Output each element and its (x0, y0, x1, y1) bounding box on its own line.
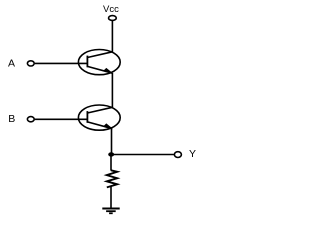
Q1 emitter arrow (103, 68, 112, 73)
svg-text:B: B (8, 113, 15, 125)
Q2 body circle (78, 105, 120, 130)
ground bar 3 (109, 212, 113, 214)
svg-text:A: A (8, 58, 15, 70)
Q1 body circle (78, 50, 120, 75)
svg-text:Vcc: Vcc (103, 4, 119, 15)
wire Vcc to Q1 collector (111, 20, 113, 52)
Q2 collector lead (87, 107, 112, 113)
ground (102, 209, 119, 214)
ground bar 2 (106, 210, 116, 212)
Q1 emitter lead (87, 66, 112, 73)
wire B to Q2 base (35, 118, 87, 120)
output terminal Y (174, 152, 181, 158)
input terminal A (27, 61, 34, 66)
transistor Q1 (NPN, input A) (78, 50, 120, 75)
wire Q1 emitter to Q2 collector (111, 73, 113, 108)
Vcc terminal (109, 16, 117, 21)
Q2 base bar (86, 111, 88, 123)
input terminal B (27, 117, 34, 122)
wire Q2 emitter to junction (111, 128, 113, 156)
Q2 emitter lead (87, 122, 112, 129)
transistor Q2 (NPN, input B) (78, 105, 120, 130)
Q1 base bar (86, 56, 88, 68)
resistor R1 (107, 170, 117, 187)
wire resistor to ground (110, 186, 112, 208)
wire A to Q1 base (35, 62, 87, 64)
junction node dot (108, 152, 114, 156)
Q1 collector lead (87, 52, 112, 58)
wire junction to resistor R1 (110, 155, 112, 171)
Q2 emitter arrow (103, 123, 112, 128)
ground bar 1 (102, 208, 119, 210)
wire junction to Y terminal (111, 154, 174, 156)
svg-text:Y: Y (189, 148, 196, 160)
